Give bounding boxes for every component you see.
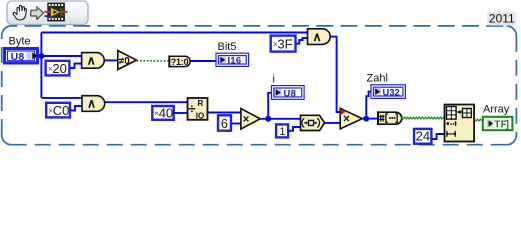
wire: 1 to rotate node input2 (289, 127, 301, 131)
svg-text:∧: ∧ (313, 30, 322, 44)
constant xC0 (46, 103, 70, 118)
toolbar palette (7, 1, 88, 25)
svg-text:×: × (343, 114, 350, 126)
wire: M1 output to number-to-bool-array (362, 118, 377, 120)
svg-text:40: 40 (159, 106, 173, 121)
wire: top rail to AND3 input1 (41, 32, 307, 34)
svg-text:IQ: IQ (196, 111, 204, 120)
wire: branch up to Zahl indicator (366, 92, 371, 119)
svg-text:U8: U8 (284, 87, 297, 98)
wire: rotate output to multiplier M1 input2 (325, 122, 341, 124)
control Byte U8 (5, 49, 39, 64)
tool icon: VI film (45, 3, 68, 22)
comparator not-equal-0 (118, 51, 137, 70)
2011 year label (487, 12, 517, 26)
indicator Zahl U32 (371, 85, 405, 99)
wire: branch up to i indicator (268, 93, 271, 119)
constant x20 (46, 61, 70, 76)
node junction on M2 output (265, 116, 271, 122)
wire: xC0 to AND2 input2 (71, 106, 82, 111)
svg-text:∧: ∧ (87, 54, 96, 68)
svg-text:Zahl: Zahl (367, 72, 388, 84)
function number to boolean array (378, 111, 402, 125)
and gate AND2 (82, 96, 105, 112)
wire: boolean array zigzag to Array indicator (475, 119, 483, 121)
wire: vertical branch from Byte junction (up to top rail, down to AND2) (40, 33, 42, 98)
svg-text:6: 6 (221, 116, 228, 131)
wire: 6 to multiplier2 input2 (232, 123, 241, 125)
svg-text:∧: ∧ (87, 97, 96, 111)
svg-text:≠0: ≠0 (119, 56, 130, 67)
wire: select output to Bit5 (191, 60, 216, 62)
indicator Array TF boolean array (483, 117, 513, 131)
coercion dot red on M1 input1 (340, 109, 345, 115)
svg-text:U32: U32 (383, 87, 400, 98)
svg-text:×: × (243, 114, 250, 126)
svg-text:R: R (198, 99, 204, 108)
wire: Byte output to AND1 input1 (39, 55, 82, 57)
constant 1 (276, 124, 288, 137)
wire: AND1 output to not-equal-zero (104, 59, 118, 61)
wire: AND3 output down to multiplier M1 input1 (330, 37, 340, 112)
svg-text:3F: 3F (277, 37, 292, 52)
tool icon: arrow (31, 7, 44, 20)
function quotient &amp; remainder (188, 98, 208, 120)
svg-text:C0: C0 (53, 103, 70, 118)
wire: remainder output to multiplier2 input1 (208, 112, 241, 114)
wire: AND2 output to quotient-remainder input1 (105, 101, 188, 103)
indicator Bit5 I16 (216, 53, 249, 66)
wire: boolean array zigzag to reshape (402, 117, 444, 119)
svg-text:2011: 2011 (489, 12, 515, 26)
svg-text:]: ] (506, 120, 509, 131)
and gate AND3 (308, 29, 331, 45)
tool icon: hand (13, 5, 26, 20)
wire: M2 output to rotate node input1 (260, 118, 300, 120)
wire: 24 to reshape dimension input (432, 134, 445, 139)
svg-text:Byte: Byte (9, 35, 31, 47)
multiplier M1 (340, 108, 362, 129)
node ?1:0 boolean-to-number (169, 55, 190, 67)
node junction on M1 output (363, 116, 369, 122)
indicator i U8 (272, 86, 305, 100)
svg-text:I16: I16 (228, 55, 242, 66)
dashed frame border (2, 26, 517, 145)
constant x40 (152, 106, 173, 121)
constant 24 (414, 129, 431, 144)
constant 6 (218, 115, 231, 131)
svg-text:i: i (273, 73, 275, 85)
node junction on Byte wire (38, 53, 44, 59)
wire: x3F to AND3 input2 (296, 38, 307, 44)
svg-text:24: 24 (416, 129, 430, 144)
function rotate (logical shift) (301, 115, 325, 130)
svg-text:20: 20 (52, 61, 66, 76)
svg-text:Array: Array (483, 104, 510, 116)
constant x3F (271, 36, 296, 52)
wire: x20 to AND1 input2 (70, 64, 81, 69)
svg-text:1: 1 (279, 126, 285, 138)
and gate AND1 (82, 53, 105, 69)
svg-text:U8: U8 (11, 52, 25, 63)
wire: x40 to quotient-remainder input2 (174, 112, 188, 114)
wire: Byte lower branch to AND2 input1 (41, 97, 82, 99)
function reshape array (445, 105, 475, 142)
svg-text:?1:0: ?1:0 (171, 57, 189, 67)
wire: boolean dotted to select ?1:0 (137, 60, 169, 62)
multiplier M2 (241, 109, 260, 129)
svg-text:Bit5: Bit5 (218, 41, 237, 53)
svg-text:÷: ÷ (188, 101, 195, 116)
